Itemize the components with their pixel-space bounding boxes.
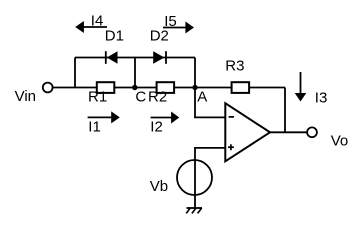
- svg-text:Vb: Vb: [150, 178, 168, 195]
- current arrow I3: [295, 72, 307, 102]
- terminal Vin: [43, 83, 53, 93]
- svg-text:I3: I3: [315, 89, 328, 106]
- wire noninverting input to Vb: [195, 148, 225, 208]
- diode D1: [106, 51, 118, 64]
- resistor R1: [97, 82, 115, 93]
- wire diode branch top horizontal: [75, 57, 195, 59]
- svg-text:A: A: [197, 88, 207, 105]
- svg-text:R3: R3: [225, 58, 244, 75]
- wire output: [270, 131, 307, 133]
- wire node A to inverting input: [195, 88, 225, 118]
- wire feedback vertical: [284, 88, 286, 133]
- node C: [132, 85, 137, 90]
- wire diode branch left vertical: [74, 58, 76, 88]
- diode D2: [153, 51, 166, 64]
- svg-text:I1: I1: [88, 118, 101, 135]
- svg-text:Vin: Vin: [15, 88, 36, 105]
- resistor R3: [232, 82, 250, 93]
- svg-text:I2: I2: [150, 119, 163, 136]
- svg-text:I5: I5: [164, 13, 177, 30]
- svg-text:I4: I4: [91, 12, 104, 29]
- svg-text:Vo: Vo: [331, 133, 349, 150]
- resistor R2: [157, 82, 175, 93]
- svg-text:D1: D1: [105, 27, 124, 44]
- current arrow I4: [75, 21, 107, 33]
- wire diode branch right vertical: [194, 58, 196, 88]
- svg-text:R2: R2: [148, 88, 167, 105]
- current arrow I2: [151, 112, 180, 124]
- current arrow I5: [163, 22, 194, 34]
- terminal Vo: [307, 127, 317, 137]
- wire diode branch mid vertical: [134, 58, 136, 88]
- node A: [192, 85, 197, 90]
- wire main horizontal: [53, 87, 285, 89]
- svg-text:C: C: [135, 88, 146, 105]
- op-amp U1: [225, 103, 270, 161]
- svg-text:D2: D2: [150, 27, 169, 44]
- source Vb: [177, 160, 212, 195]
- svg-text:R1: R1: [88, 88, 107, 105]
- current arrow I1: [88, 111, 120, 123]
- ground: [186, 208, 202, 213]
